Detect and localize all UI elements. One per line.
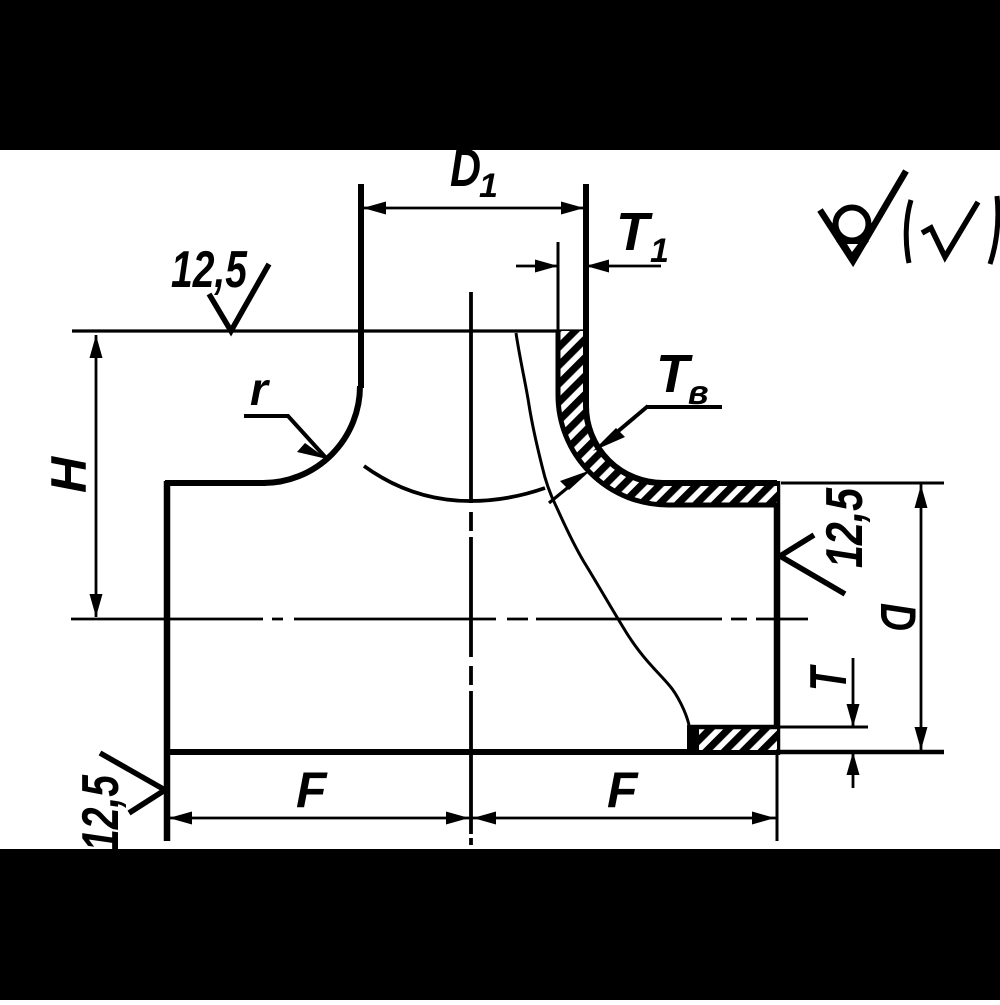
freehand break line bbox=[516, 333, 689, 725]
paren left bbox=[906, 200, 911, 263]
Tb upper arrow bbox=[593, 428, 625, 451]
run bottom face bbox=[164, 749, 780, 755]
surface symbol vertex fill bbox=[836, 241, 869, 263]
svg-text:r: r bbox=[250, 363, 270, 415]
Tb leader upper bbox=[610, 406, 722, 438]
paren right bbox=[990, 196, 998, 264]
bottom face extension right (D/T dims) bbox=[780, 750, 944, 755]
inner fillet (bore) bbox=[558, 395, 668, 505]
svg-text:F: F bbox=[607, 762, 639, 818]
svg-text:1: 1 bbox=[650, 232, 669, 270]
surface symbol V bbox=[820, 171, 906, 261]
run right end face extension below bbox=[776, 755, 779, 841]
svg-text:12,5: 12,5 bbox=[816, 487, 874, 568]
D arrows bbox=[915, 485, 928, 508]
svg-text:F: F bbox=[296, 762, 328, 818]
top face extension right (D dim) bbox=[781, 482, 944, 485]
bottom wall hatched strip bbox=[690, 728, 777, 750]
run inner top surface bbox=[668, 503, 777, 508]
run right end face bbox=[774, 481, 781, 755]
run top face left bbox=[165, 480, 266, 486]
svg-text:T: T bbox=[616, 202, 653, 262]
svg-text:H: H bbox=[41, 456, 97, 493]
r leader bbox=[244, 416, 327, 459]
svg-text:T: T bbox=[800, 664, 858, 691]
D1 arrows bbox=[363, 202, 386, 215]
horizontal centerline (run axis) bbox=[71, 618, 808, 621]
surface symbol circle bbox=[836, 208, 869, 241]
svg-text:1: 1 bbox=[479, 167, 498, 205]
arrowheads bbox=[90, 202, 928, 825]
dimension D line bbox=[920, 484, 923, 751]
dimension T lines bbox=[852, 658, 855, 788]
vertical centerline (branch axis) bbox=[469, 292, 473, 845]
branch inner wall extension line bbox=[557, 242, 560, 331]
branch outer left wall bbox=[358, 184, 364, 388]
bottom strip left end block bbox=[687, 725, 699, 751]
saddle arc (run bore seen through branch) bbox=[364, 466, 545, 501]
T1 arrows bbox=[535, 260, 558, 273]
dimension H line bbox=[95, 335, 98, 617]
branch face line bbox=[72, 329, 589, 332]
branch outer right wall bbox=[583, 184, 589, 406]
branch inner right wall bbox=[556, 331, 561, 395]
bottom black bar bbox=[0, 849, 1000, 1000]
outer fillet right bbox=[586, 406, 663, 483]
H arrows bbox=[90, 335, 103, 358]
dimension T1 lines bbox=[516, 265, 661, 268]
r leader arrow bbox=[297, 443, 327, 459]
roughness check right bbox=[780, 535, 845, 594]
F arrows bbox=[169, 812, 192, 825]
svg-text:12,5: 12,5 bbox=[171, 241, 248, 299]
run top face right bbox=[661, 480, 777, 486]
Tb leader lower tail bbox=[549, 480, 577, 503]
dimension F lines bbox=[167, 817, 777, 820]
svg-text:D: D bbox=[870, 603, 926, 631]
svg-text:12,5: 12,5 bbox=[72, 774, 130, 851]
roughness check bottom-left bbox=[100, 753, 165, 813]
dimension D1 line bbox=[361, 207, 586, 210]
T arrows bbox=[847, 704, 860, 727]
svg-text:в: в bbox=[688, 374, 709, 412]
Tb lower arrow bbox=[560, 470, 591, 490]
svg-text:D: D bbox=[450, 138, 481, 198]
fillet r left bbox=[263, 386, 360, 483]
roughness check top-left bbox=[209, 264, 269, 331]
hatched section band (branch right wall into run top wall) bbox=[558, 331, 777, 505]
run inner bottom surface bbox=[688, 725, 777, 730]
top black bar bbox=[0, 0, 1000, 150]
inner bottom surface extension (T dim) bbox=[777, 726, 868, 729]
run left end face bbox=[164, 481, 171, 841]
check in parens bbox=[922, 202, 978, 257]
